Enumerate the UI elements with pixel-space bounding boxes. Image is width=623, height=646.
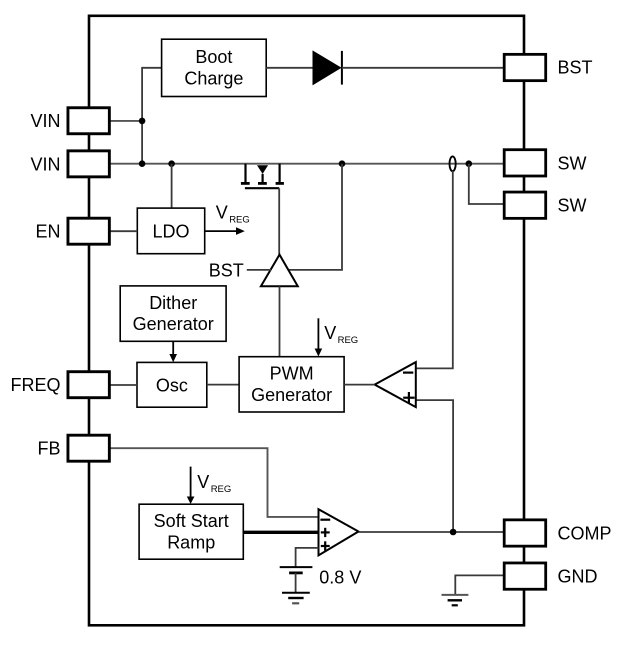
pin SW (2) bbox=[504, 192, 586, 218]
op-amp U1 (gate driver buffer) bbox=[261, 255, 298, 287]
pin SW (1) bbox=[504, 150, 586, 176]
wire: Boot Charge input from VIN vertical bbox=[142, 68, 162, 164]
node: SW junction bbox=[466, 160, 473, 167]
pin VIN (1) bbox=[30, 108, 109, 134]
svg-text:Charge: Charge bbox=[184, 69, 243, 89]
op-amp U2 (PWM comparator) bbox=[375, 362, 416, 407]
svg-text:Ramp: Ramp bbox=[167, 532, 215, 552]
block: LDO bbox=[137, 208, 204, 254]
pin BST bbox=[504, 54, 592, 80]
battery: 0.8 V reference bbox=[280, 567, 313, 593]
block: Soft Start Ramp bbox=[139, 504, 243, 559]
transistor Q1 (high-side MOSFET) bbox=[241, 164, 284, 189]
label VREG (LDO output) bbox=[216, 203, 250, 226]
wire: LDO VREG output arrow bbox=[205, 227, 245, 235]
pin EN bbox=[35, 218, 109, 244]
block: Boot Charge bbox=[162, 39, 267, 96]
node: COMP junction bbox=[450, 529, 457, 536]
diode D1 bbox=[313, 51, 342, 85]
svg-text:COMP: COMP bbox=[558, 524, 612, 544]
pin COMP bbox=[504, 520, 611, 546]
svg-text:REG: REG bbox=[211, 484, 232, 495]
svg-text:VIN: VIN bbox=[30, 111, 60, 131]
svg-text:SW: SW bbox=[558, 196, 587, 216]
wire: SW2 pin connection bbox=[469, 164, 504, 204]
svg-text:PWM: PWM bbox=[270, 364, 314, 384]
wire: comparator plus to COMP net bbox=[416, 400, 453, 532]
IC boundary bbox=[89, 16, 524, 626]
pin VIN (2) bbox=[30, 151, 109, 177]
wire: diode to BST pin bbox=[342, 67, 504, 69]
wire: comparator minus sense (from hop down) bbox=[416, 171, 453, 368]
wire: reference to error amp lower plus bbox=[296, 548, 319, 567]
svg-text:REG: REG bbox=[229, 215, 250, 226]
svg-text:GND: GND bbox=[558, 567, 598, 587]
wire: gate to driver bbox=[278, 188, 280, 254]
wire: Soft Start to error amp plus (thick) bbox=[243, 531, 318, 534]
block: PWM Generator bbox=[239, 357, 344, 412]
svg-text:Boot: Boot bbox=[195, 47, 232, 67]
svg-text:Generator: Generator bbox=[251, 385, 332, 405]
block: Osc bbox=[137, 362, 207, 407]
wire: BST label to driver bbox=[247, 269, 271, 271]
svg-text:Generator: Generator bbox=[133, 314, 214, 334]
wire: FB pin to error amp minus bbox=[110, 448, 319, 517]
label VREG (Soft Start) bbox=[197, 472, 231, 495]
svg-text:V: V bbox=[197, 472, 209, 492]
wire: driver output to PWM Generator bbox=[279, 286, 281, 356]
svg-text:FREQ: FREQ bbox=[10, 375, 60, 395]
wire: VIN1 pin to vertical bbox=[110, 120, 143, 122]
svg-text:LDO: LDO bbox=[152, 221, 189, 241]
svg-text:FB: FB bbox=[37, 439, 60, 459]
svg-text:EN: EN bbox=[35, 222, 60, 242]
wire: crossover hop bbox=[450, 156, 456, 171]
wire: driver supply from rail bbox=[288, 164, 342, 270]
pin GND bbox=[504, 563, 597, 589]
svg-text:V: V bbox=[216, 203, 228, 223]
svg-text:BST: BST bbox=[209, 260, 244, 280]
svg-text:Osc: Osc bbox=[156, 375, 188, 395]
op-amp U3 (error amplifier) bbox=[319, 509, 359, 555]
svg-text:V: V bbox=[324, 323, 336, 343]
svg-text:BST: BST bbox=[558, 58, 593, 78]
wire: FREQ pin to Osc bbox=[110, 384, 137, 386]
ground (reference) bbox=[282, 593, 310, 604]
wire: Dither to Osc arrow bbox=[169, 341, 177, 362]
wire: EN pin to LDO bbox=[110, 230, 138, 232]
pin FB bbox=[37, 435, 109, 461]
wire: Boot Charge to diode bbox=[266, 67, 313, 69]
wire: Osc to PWM Generator bbox=[207, 384, 239, 386]
svg-text:REG: REG bbox=[338, 335, 359, 346]
node: VIN1 junction bbox=[139, 118, 146, 125]
block: Dither Generator bbox=[120, 286, 226, 341]
svg-text:Dither: Dither bbox=[149, 293, 197, 313]
wire: error amp output to COMP bbox=[359, 531, 505, 533]
wire: comparator output to PWM Generator bbox=[344, 384, 375, 386]
wire: VREG arrow into PWM Generator bbox=[315, 318, 323, 356]
label VREG (PWM) bbox=[324, 323, 358, 346]
wire: GND pin to ground bbox=[455, 575, 504, 595]
wire: LDO input drop bbox=[171, 164, 173, 208]
node: LDO feed junction bbox=[168, 160, 175, 167]
wire: VREG arrow into Soft Start Ramp bbox=[187, 467, 195, 504]
pin FREQ bbox=[10, 372, 109, 398]
svg-text:SW: SW bbox=[558, 154, 587, 174]
node: VIN2 junction bbox=[139, 160, 146, 167]
node: driver feed junction bbox=[339, 160, 346, 167]
svg-text:Soft Start: Soft Start bbox=[154, 511, 229, 531]
wire: VIN rail to SW bbox=[110, 163, 505, 165]
svg-text:0.8 V: 0.8 V bbox=[319, 567, 361, 587]
ground (GND pin) bbox=[442, 595, 469, 605]
svg-text:VIN: VIN bbox=[30, 154, 60, 174]
